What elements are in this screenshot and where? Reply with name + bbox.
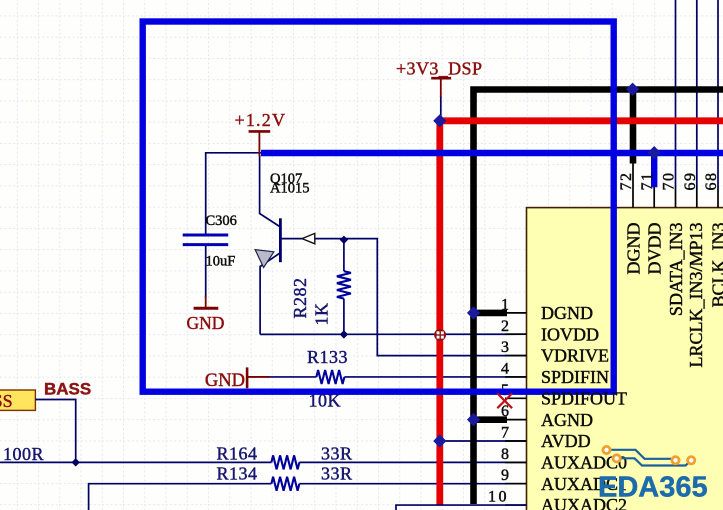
svg-text:R134: R134	[217, 464, 258, 484]
svg-text:AVDD: AVDD	[541, 431, 591, 451]
power port +3V3_DSP	[431, 77, 451, 80]
svg-text:LRCLK_IN3/MP13: LRCLK_IN3/MP13	[686, 223, 706, 368]
wire emitter/R282 bottom to pin2 IOVDD	[260, 333, 526, 335]
junction node R282 bottom	[340, 330, 348, 338]
svg-text:69: 69	[682, 172, 699, 191]
svg-text:IOVDD: IOVDD	[541, 324, 599, 344]
transistor Q107 base-wire hollow arrow	[302, 233, 315, 243]
svg-text:EDA365: EDA365	[598, 472, 708, 504]
capacitor C306 plates	[183, 234, 229, 237]
svg-text:GND: GND	[187, 313, 225, 333]
svg-text:70: 70	[661, 172, 678, 191]
svg-text:71: 71	[639, 172, 656, 191]
wire R164 to pin8 AUXADC0	[299, 461, 526, 463]
junction node on red rail top	[433, 114, 446, 127]
junction node BASS/100R	[72, 458, 80, 466]
blue border rectangle (wide wire loop)	[143, 22, 614, 392]
wire C306 top to +1.2V node	[206, 153, 262, 234]
pin 4	[505, 376, 527, 378]
svg-text:10K: 10K	[309, 391, 342, 411]
svg-text:6: 6	[501, 403, 509, 420]
pin 3	[505, 355, 527, 357]
resistor R282 zigzag	[337, 271, 351, 298]
svg-text:DGND: DGND	[624, 223, 644, 275]
wire Q107 base to R282 top to pin3 VDRIVE	[282, 239, 527, 356]
pin 68	[717, 187, 719, 208]
wire pin7 AVDD to +3V3 rail	[440, 440, 527, 442]
svg-text:AGND: AGND	[541, 410, 593, 430]
thick blue stub pin 71	[651, 151, 657, 187]
pin 10	[505, 504, 527, 506]
wire riser to R134	[89, 484, 272, 510]
pin 70	[675, 187, 677, 208]
svg-text:GND: GND	[205, 371, 245, 391]
wire Q107 emitter down	[260, 253, 280, 335]
wire pin70 up	[675, 0, 677, 187]
pin 69	[696, 187, 698, 208]
thick blue +1.2V rail	[261, 150, 723, 156]
pin 71	[653, 187, 655, 208]
svg-text:VDRIVE: VDRIVE	[541, 346, 609, 366]
svg-text:10: 10	[488, 489, 509, 506]
junction node R282 top	[340, 236, 348, 244]
port BASS (yellow box, clipped at left edge)	[0, 390, 35, 410]
svg-text:C306: C306	[206, 213, 237, 229]
wire to pin10 AUXADC2	[396, 505, 527, 510]
resistor R133 zigzag	[316, 370, 344, 384]
svg-text:2: 2	[501, 318, 509, 335]
wire C306 bottom	[205, 246, 207, 298]
pin 2	[505, 333, 527, 335]
power port +1.2V	[249, 130, 271, 133]
junction node pin7/red	[433, 434, 446, 447]
svg-text:8: 8	[501, 446, 509, 463]
svg-text:100R: 100R	[3, 444, 44, 464]
svg-text:33R: 33R	[321, 444, 353, 464]
transistor Q107 base bar	[279, 218, 282, 262]
wire GND to R133	[268, 376, 316, 378]
thick black stub pin 72	[630, 90, 637, 164]
pin 9	[505, 483, 527, 485]
svg-text:SDATA_IN3: SDATA_IN3	[666, 223, 686, 317]
thick black bus: corner at (473.5,91)	[474, 90, 723, 505]
thick red +3V3 rail	[440, 121, 723, 505]
wire pin69 up	[696, 0, 698, 187]
junction node pin1	[467, 306, 480, 319]
pin 6	[505, 419, 527, 421]
pin 72	[632, 163, 634, 208]
power port GND (C306)	[205, 296, 207, 308]
svg-text:9: 9	[501, 467, 509, 484]
pin 8	[505, 461, 527, 463]
wire 100R net to R164	[0, 461, 271, 463]
svg-text:+3V3_DSP: +3V3_DSP	[396, 59, 482, 79]
wire pin68 up	[717, 0, 719, 187]
resistor R164 zigzag	[271, 455, 299, 469]
svg-text:R282: R282	[290, 277, 310, 318]
svg-text:SS: SS	[0, 391, 13, 411]
wire R134 to pin9 AUXADC1	[299, 483, 526, 485]
svg-text:DGND: DGND	[541, 303, 593, 323]
pin 1	[505, 312, 527, 314]
svg-text:BCLK_IN3: BCLK_IN3	[709, 223, 723, 308]
resistor R134 zigzag	[271, 477, 299, 491]
wire Q107 collector	[260, 155, 281, 227]
svg-text:+1.2V: +1.2V	[235, 110, 287, 130]
thick black stub pin 1	[474, 310, 508, 317]
transistor Q107 emitter arrow (gray)	[255, 250, 274, 268]
svg-text:72: 72	[618, 172, 635, 191]
pin 5	[505, 397, 527, 399]
no-ERC X marker on pin5	[497, 393, 512, 408]
svg-text:R133: R133	[307, 347, 348, 367]
svg-text:3: 3	[501, 339, 509, 356]
no-ERC cross-circle marker on pin2 line	[434, 329, 446, 341]
power port GND (R133)	[246, 367, 249, 388]
EDA365 watermark vias	[603, 446, 695, 464]
svg-text:A1015: A1015	[270, 181, 309, 197]
svg-text:68: 68	[703, 172, 720, 191]
wire +3V3 stub lower	[440, 96, 442, 120]
svg-text:SPDIFOUT: SPDIFOUT	[541, 388, 627, 408]
svg-text:SPDIFIN: SPDIFIN	[541, 367, 609, 387]
wire BASS port to junction	[35, 400, 75, 463]
svg-text:1: 1	[501, 296, 509, 313]
svg-text:BASS: BASS	[44, 380, 91, 399]
svg-text:33R: 33R	[321, 464, 353, 484]
svg-text:DVDD: DVDD	[645, 223, 665, 275]
svg-text:7: 7	[501, 425, 509, 442]
pin 7	[505, 440, 527, 442]
EDA365 watermark traces	[611, 450, 691, 466]
thick black stub pin 6	[474, 416, 508, 423]
svg-text:1K: 1K	[312, 303, 332, 326]
wire R133 to pin4 SPDIFIN	[344, 376, 526, 378]
IC U1 (codec) yellow body	[527, 208, 723, 510]
svg-text:4: 4	[501, 360, 509, 377]
junction node on black bus	[626, 83, 639, 96]
wire R282 bottom lead	[343, 299, 345, 335]
junction node pin6	[467, 413, 480, 426]
wire R282 top lead	[343, 240, 345, 271]
junction node on blue rail pin71	[648, 146, 661, 159]
svg-text:R164: R164	[217, 444, 258, 464]
svg-text:10uF: 10uF	[206, 254, 236, 270]
